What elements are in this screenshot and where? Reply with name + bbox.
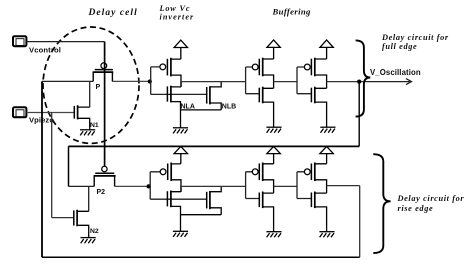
nmos buffer4 <box>311 192 326 232</box>
brace full edge <box>356 40 371 116</box>
wire Vpiezo to N2 gate vertical <box>51 113 53 218</box>
transistor NLA <box>167 82 181 110</box>
ground under bottom inverter <box>173 215 188 237</box>
transistor NLB <box>181 82 222 110</box>
port Vcontrol <box>13 36 26 46</box>
wire Vcontrol gate bus vertical <box>104 42 106 167</box>
svg-text:Delay circuit for: Delay circuit for <box>381 33 449 42</box>
vdd triangle low-Vc <box>174 40 187 59</box>
svg-text:Vcontrol: Vcontrol <box>29 45 61 54</box>
wire V_Oscillation arrow <box>367 79 412 85</box>
wire buffer1 output <box>274 81 297 83</box>
wire P2 drain to bottom row input <box>115 185 151 187</box>
vdd triangle bottom inverter <box>174 146 187 164</box>
pmos buffer1 <box>252 58 273 89</box>
svg-text:V_Oscillation: V_Oscillation <box>370 68 421 77</box>
wire N1 drain riser <box>89 81 91 107</box>
node junction dot at bottom row input <box>147 184 151 188</box>
pmos buffer3 <box>252 163 273 194</box>
wire buffer3 output <box>274 185 297 187</box>
wire input bus buffer1 <box>246 67 259 94</box>
ground under buffer4 <box>319 232 334 238</box>
ground under low-Vc inverter <box>173 110 188 133</box>
wire input bus bottom inverter <box>150 172 206 199</box>
svg-text:Delay cell: Delay cell <box>88 8 138 18</box>
port Vpiezo <box>13 107 26 117</box>
brace rise edge <box>373 154 390 253</box>
ground under N2 <box>81 231 96 244</box>
wire low-Vc output <box>181 81 246 83</box>
dashed ellipse around delay cell <box>43 27 139 143</box>
pmos buffer2 <box>304 58 326 89</box>
wire bottom right vertical <box>359 186 361 258</box>
svg-text:rise edge: rise edge <box>398 204 434 213</box>
wire V_osc feedback horizontal <box>69 145 360 147</box>
pmos bottom inverter <box>160 163 181 192</box>
vdd triangle buffer4 <box>320 146 333 163</box>
ground under buffer1 <box>266 127 281 133</box>
nmos bottom inverter (NLA-like) <box>167 186 181 214</box>
svg-text:N2: N2 <box>90 228 99 235</box>
wire input bus buffer3 <box>246 172 259 199</box>
wire input bus low-Vc <box>151 67 207 95</box>
wire bottom feedback horizontal <box>42 256 360 258</box>
svg-text:inverter: inverter <box>160 13 195 22</box>
nmos bottom inverter (NLB-like) <box>181 186 222 214</box>
wire N2 drain riser <box>88 186 90 211</box>
ground under buffer2 <box>320 127 335 133</box>
pmos buffer4 <box>304 163 326 194</box>
svg-text:Delay circuit for: Delay circuit for <box>397 194 465 203</box>
transistor P2 (PMOS, horizontal) <box>94 166 116 186</box>
wire V_osc feedback right vertical <box>358 82 360 147</box>
ground under buffer3 <box>266 232 281 238</box>
nmos buffer1 <box>259 87 273 128</box>
svg-text:full edge: full edge <box>382 42 417 51</box>
transistor N1 (NMOS) <box>74 105 89 123</box>
wire V_osc feedback left vertical <box>68 146 70 186</box>
svg-text:Buffering: Buffering <box>272 7 312 17</box>
node junction dot at low-Vc input <box>148 79 152 83</box>
svg-text:NLB: NLB <box>222 103 236 110</box>
wire bottom inverter output <box>181 185 246 187</box>
wire Vpiezo horizontal <box>27 112 74 114</box>
wire N2 gate stub <box>52 217 74 219</box>
wire P drain to inverter input <box>112 80 150 82</box>
wire input bus buffer2 <box>297 67 311 94</box>
wire input bus buffer4 <box>297 172 311 199</box>
vdd triangle buffer1 <box>267 40 280 59</box>
nmos buffer2 <box>311 87 326 128</box>
transistor P (PMOS, horizontal) <box>93 63 114 82</box>
vdd triangle buffer3 <box>267 146 280 163</box>
nmos buffer3 <box>259 192 273 232</box>
wire node X left vertical <box>41 81 43 257</box>
wire P left node <box>42 80 93 82</box>
svg-text:N1: N1 <box>90 122 99 129</box>
pmos low-Vc inverter <box>160 58 181 87</box>
wire Vcontrol horizontal <box>27 41 105 43</box>
wire buffer4 output to feedback <box>327 185 360 187</box>
svg-text:P2: P2 <box>97 189 106 196</box>
wire P2 left node <box>69 185 95 187</box>
node junction dot V_osc <box>357 80 361 84</box>
ground under N1 <box>80 124 95 136</box>
vdd triangle buffer2 <box>320 40 333 59</box>
transistor N2 (NMOS) <box>74 210 89 231</box>
svg-text:P: P <box>96 84 101 91</box>
wire buffer2 output <box>327 81 367 83</box>
